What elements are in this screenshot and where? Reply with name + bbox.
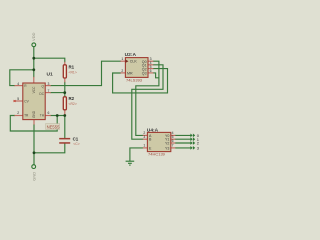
svg-text:Q3: Q3 bbox=[142, 71, 147, 75]
svg-text:U4:A: U4:A bbox=[147, 127, 159, 133]
svg-text:R2: R2 bbox=[69, 96, 75, 101]
svg-text:74LS393: 74LS393 bbox=[126, 78, 143, 83]
svg-text:2: 2 bbox=[17, 111, 19, 115]
svg-text:C1: C1 bbox=[73, 137, 79, 142]
svg-text:NE555: NE555 bbox=[47, 124, 60, 129]
svg-text:R1: R1 bbox=[69, 65, 75, 70]
svg-text:VDD: VDD bbox=[31, 32, 36, 41]
svg-text:GND: GND bbox=[31, 172, 36, 181]
svg-text:74HC139: 74HC139 bbox=[148, 151, 166, 156]
svg-text:MR: MR bbox=[127, 71, 133, 75]
svg-text:Y2: Y2 bbox=[165, 141, 169, 145]
svg-text:VCC: VCC bbox=[32, 86, 36, 93]
svg-text:6: 6 bbox=[150, 69, 152, 73]
svg-text:3: 3 bbox=[143, 135, 145, 139]
svg-text:CLK: CLK bbox=[130, 60, 138, 64]
svg-text:4: 4 bbox=[17, 82, 19, 86]
svg-text:<R2>: <R2> bbox=[69, 102, 77, 106]
svg-text:1: 1 bbox=[143, 144, 145, 148]
svg-text:6: 6 bbox=[172, 139, 174, 143]
svg-text:<C>: <C> bbox=[73, 142, 79, 146]
svg-text:2: 2 bbox=[121, 69, 123, 73]
svg-text:U2:A: U2:A bbox=[125, 52, 137, 58]
svg-text:5: 5 bbox=[17, 97, 19, 101]
svg-text:3: 3 bbox=[48, 82, 50, 86]
svg-text:TH: TH bbox=[40, 114, 45, 118]
svg-text:Y3: Y3 bbox=[165, 146, 169, 150]
svg-text:DC: DC bbox=[39, 92, 44, 96]
svg-text:U1: U1 bbox=[47, 72, 54, 78]
svg-text:TR: TR bbox=[24, 114, 29, 118]
svg-text:<R1>: <R1> bbox=[69, 70, 77, 74]
svg-text:6: 6 bbox=[48, 111, 50, 115]
svg-text:7: 7 bbox=[172, 144, 174, 148]
svg-text:7: 7 bbox=[48, 89, 50, 93]
svg-text:GND: GND bbox=[32, 110, 36, 118]
svg-text:1: 1 bbox=[121, 57, 123, 61]
